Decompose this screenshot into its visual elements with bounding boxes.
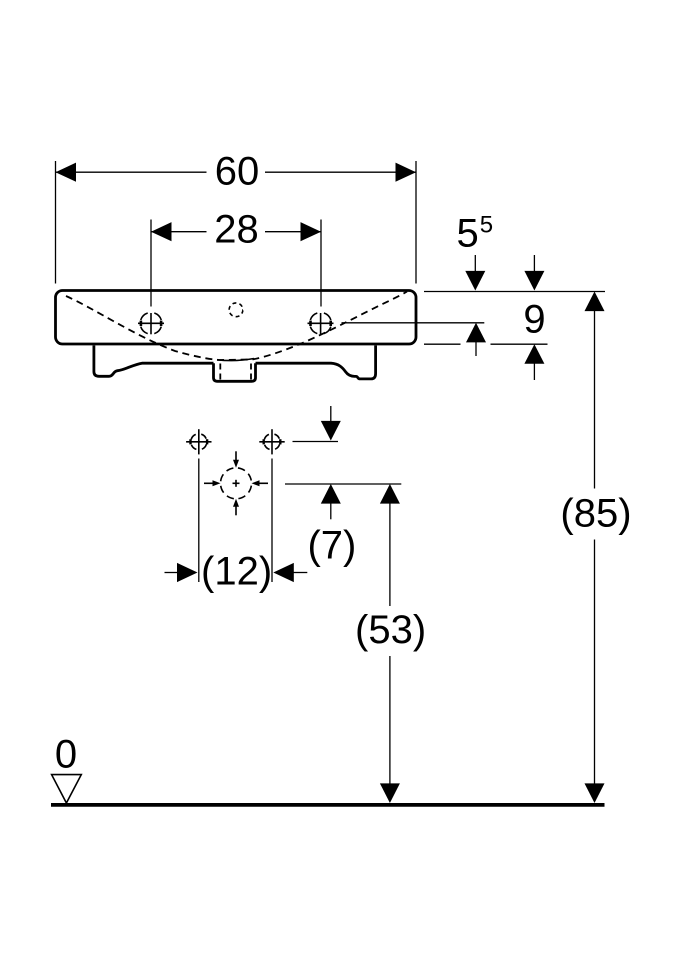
svg-text:0: 0 [55,733,77,777]
svg-text:9: 9 [523,297,545,341]
svg-text:(85): (85) [560,492,631,536]
svg-text:(53): (53) [355,608,426,652]
svg-text:28: 28 [214,207,259,251]
svg-text:5: 5 [480,211,493,238]
svg-text:5: 5 [457,211,479,255]
svg-text:(7): (7) [307,523,356,567]
svg-text:60: 60 [215,150,260,194]
svg-text:(12): (12) [201,550,272,594]
